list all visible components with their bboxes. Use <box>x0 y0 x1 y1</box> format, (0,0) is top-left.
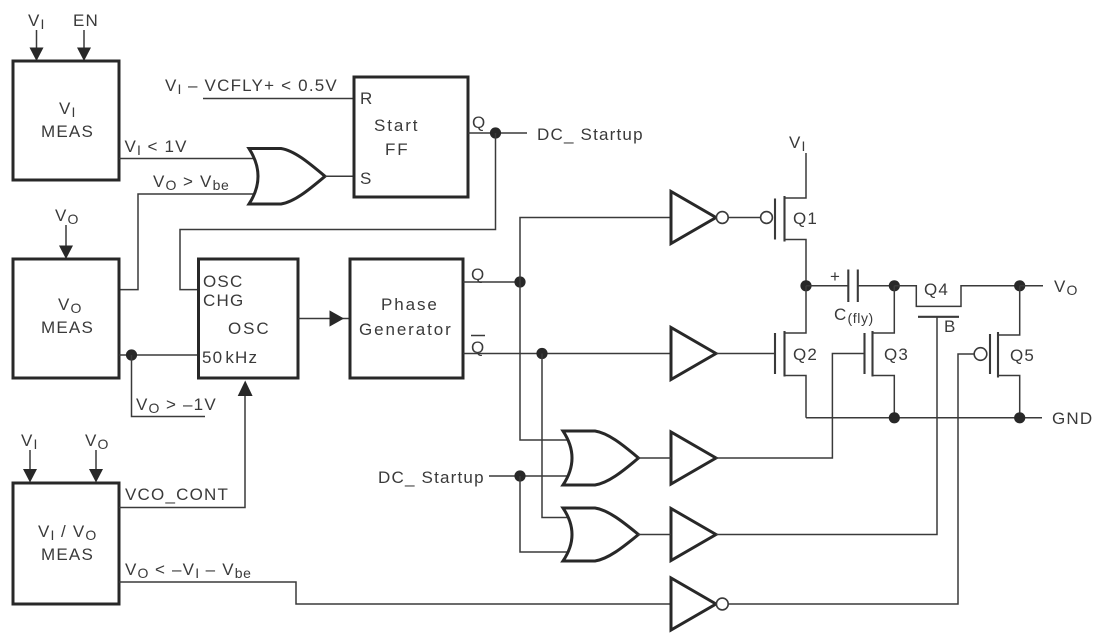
wire VO MEAS to OSC 50kHz <box>119 354 199 356</box>
svg-text:Q4: Q4 <box>924 280 949 299</box>
buffer B4 <box>671 509 716 561</box>
wire Q4 gate down to B4 output <box>716 317 937 535</box>
svg-text:EN: EN <box>73 11 99 30</box>
node Qbar junction <box>536 348 547 359</box>
wire node VO down to Q5 drain <box>998 286 1020 335</box>
svg-text:DC_ Startup: DC_ Startup <box>378 468 485 487</box>
wire VO<-VI-Vbe to inverter B5 <box>119 582 671 604</box>
arrow VI into VI MEAS <box>30 30 44 61</box>
arrow VI into VI/VO MEAS <box>23 450 37 483</box>
or-gate OR1 <box>563 431 639 485</box>
inverter B1 <box>671 192 728 244</box>
svg-text:VCO_CONT: VCO_CONT <box>125 485 229 504</box>
wire node A to capacitor <box>806 285 848 287</box>
wire VO stub <box>1020 285 1043 287</box>
wire DC_Startup down to OR2 <box>520 476 570 552</box>
buffer B3 <box>671 432 716 484</box>
wire VCO_CONT to OSC bottom with arrow <box>119 381 253 508</box>
arrow VO into VO MEAS <box>59 225 73 259</box>
wire Q3 source to GND <box>873 376 895 418</box>
or-gate OR2 <box>563 508 639 561</box>
svg-text:Phase: Phase <box>381 295 439 314</box>
svg-text:CHG: CHG <box>203 291 244 310</box>
wire DC_Startup bottom to OR1 <box>489 475 570 477</box>
svg-text:Q1: Q1 <box>793 209 818 228</box>
svg-text:DC_ Startup: DC_ Startup <box>537 125 644 144</box>
wire G1 output to S <box>325 175 354 177</box>
wire DC_Startup to OSC CHG <box>180 133 496 290</box>
svg-text:GND: GND <box>1052 409 1093 428</box>
wire Q to junction <box>463 281 520 283</box>
wire Q2 drain to node A <box>785 286 807 333</box>
wire VI to Q1 drain <box>785 153 807 198</box>
node B junction <box>889 280 900 291</box>
block OSC <box>199 259 299 378</box>
wire OR2 to B4 <box>638 534 671 536</box>
wire capacitor to node B <box>858 285 895 287</box>
svg-text:VO > –1V: VO > –1V <box>136 395 217 416</box>
svg-text:Q3: Q3 <box>884 345 909 364</box>
svg-text:VI – VCFLY+ < 0.5V: VI – VCFLY+ < 0.5V <box>165 76 338 97</box>
svg-text:S: S <box>360 169 373 188</box>
node GND Q3 junction <box>889 412 900 423</box>
wire stub VO > -1V <box>132 355 206 417</box>
wire Qbar to buffer B2 <box>463 353 671 355</box>
wire R input <box>203 98 354 100</box>
wire VI<1V to OR gate <box>119 158 260 160</box>
wire B2 to Q2 gate <box>716 353 774 355</box>
wire Q1 source to node A <box>785 240 807 286</box>
wire Qbar down to OR2 <box>542 354 570 518</box>
wire Q3 drain to node B <box>873 286 895 333</box>
arrow VO into VI/VO MEAS <box>89 450 103 483</box>
transistor Q3 <box>865 331 910 377</box>
or-gate G1 <box>249 149 325 205</box>
block VO MEAS <box>13 259 119 378</box>
wire OSC to Phase Generator with arrow <box>298 310 350 326</box>
flip-flop Start FF <box>354 77 468 197</box>
transistor Q2 <box>775 331 818 377</box>
svg-text:MEAS: MEAS <box>41 318 94 337</box>
block VI/VO MEAS <box>13 483 119 604</box>
node A junction <box>800 280 811 291</box>
node VO meas junction <box>126 349 137 360</box>
transistor Q5 <box>974 332 1035 378</box>
node DC_Startup junction <box>514 470 525 481</box>
wire B3 output to Q3 gate <box>716 354 864 459</box>
svg-text:MEAS: MEAS <box>41 545 94 564</box>
wire OR1 to B3 <box>638 457 671 459</box>
svg-text:Q2: Q2 <box>793 345 818 364</box>
node Q startup junction <box>490 127 501 138</box>
block Phase Generator <box>350 259 463 378</box>
wire Q5 source to GND <box>998 376 1020 418</box>
transistor Q1 <box>761 196 818 242</box>
block VI MEAS <box>13 61 119 180</box>
wire Q2 source to GND <box>785 376 807 418</box>
svg-text:Q: Q <box>471 265 485 284</box>
svg-text:OSC: OSC <box>228 319 271 338</box>
wire B1 bubble to Q1 gate bubble <box>728 217 760 219</box>
svg-text:50kHz: 50kHz <box>202 348 258 367</box>
node VO junction <box>1014 280 1025 291</box>
buffer B2 <box>671 328 716 380</box>
node GND right junction <box>1014 412 1025 423</box>
svg-text:FF: FF <box>385 140 410 159</box>
svg-text:VI < 1V: VI < 1V <box>125 137 188 158</box>
svg-text:Q: Q <box>472 113 486 132</box>
arrow EN into VI MEAS <box>77 30 91 61</box>
svg-text:Start: Start <box>374 116 419 135</box>
wire GND rail <box>806 417 1042 419</box>
capacitor Cfly <box>834 270 874 327</box>
svg-text:+: + <box>830 267 841 286</box>
wire VO MEAS up to OR gate <box>119 194 260 290</box>
svg-text:R: R <box>360 89 373 108</box>
transistor Q4 <box>894 280 1019 317</box>
wire B5 output to Q5 gate <box>728 354 974 604</box>
node Q junction <box>514 276 525 287</box>
wire Q up to inverter B1 and down to OR1 <box>520 218 671 441</box>
svg-text:MEAS: MEAS <box>41 122 94 141</box>
svg-text:Q5: Q5 <box>1010 346 1035 365</box>
svg-text:OSC: OSC <box>203 272 243 291</box>
wire Q output <box>468 132 527 134</box>
inverter B5 <box>671 578 728 630</box>
svg-text:Generator: Generator <box>359 320 453 339</box>
pin Qbar of Phase Generator <box>471 336 485 358</box>
svg-text:B: B <box>944 317 957 336</box>
